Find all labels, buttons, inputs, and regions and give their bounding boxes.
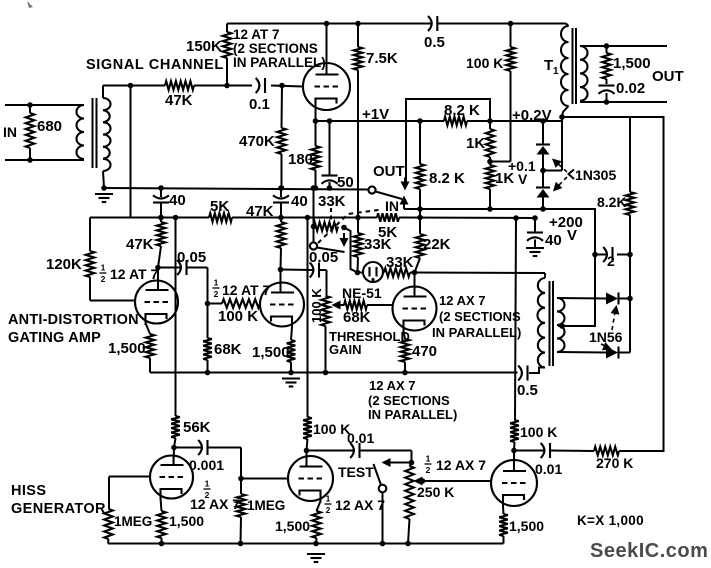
wire 8.2K right bottom xyxy=(629,215,631,353)
node bus2 B+ xyxy=(513,215,519,221)
capacitor 2 wire xyxy=(595,254,606,256)
resistor 5K-2 xyxy=(377,213,399,222)
svg-text:0.5: 0.5 xyxy=(517,382,538,399)
wire 0.01-1 down xyxy=(411,451,413,463)
svg-text:33K: 33K xyxy=(386,254,414,271)
svg-text:5K: 5K xyxy=(210,198,229,215)
arrow OUT contact xyxy=(401,182,410,191)
transformer T-in secondary xyxy=(103,98,111,171)
svg-text:1: 1 xyxy=(101,263,106,273)
resistor 680 xyxy=(26,113,35,148)
svg-text:0.05: 0.05 xyxy=(177,249,206,266)
resistor 1K-1 xyxy=(486,129,495,157)
capacitor 0.5-2 xyxy=(518,366,522,381)
resistor 47K signal xyxy=(165,81,194,90)
wire V3 plate lead xyxy=(280,270,282,285)
wire bus1-bus2 link xyxy=(419,209,421,218)
resistor 1500-1 xyxy=(146,334,155,358)
svg-text:(2 SECTIONS: (2 SECTIONS xyxy=(439,309,521,324)
svg-text:SeekIC.com: SeekIC.com xyxy=(590,540,708,562)
transformer T1 core xyxy=(572,28,574,104)
node 1K-2 bottom xyxy=(487,206,493,212)
resistor 33K-v leads xyxy=(357,218,359,234)
svg-text:1N305: 1N305 xyxy=(575,167,616,183)
wire 68K to grid xyxy=(367,304,393,306)
node V6 plate xyxy=(304,448,310,454)
dashes 1N305-1 xyxy=(555,161,567,172)
capacitor 0.5 top xyxy=(428,16,432,31)
artifact speck xyxy=(27,1,33,8)
dashes 1N305-2 xyxy=(556,177,567,188)
wire sec top xyxy=(557,297,606,300)
wire hiss2 feed xyxy=(307,218,309,418)
transformer T-out secondary xyxy=(557,298,565,352)
wire V4 cathode lead xyxy=(404,331,406,339)
svg-text:47K: 47K xyxy=(126,236,154,253)
switch TEST circle xyxy=(379,485,387,493)
svg-text:680: 680 xyxy=(37,118,62,135)
wire 56K bottom xyxy=(174,438,176,448)
svg-text:47K: 47K xyxy=(246,203,274,220)
resistor 1K-1 leads xyxy=(489,121,491,129)
svg-text:1,500: 1,500 xyxy=(252,344,290,361)
svg-text:0.001: 0.001 xyxy=(189,457,224,473)
svg-text:K=X 1,000: K=X 1,000 xyxy=(577,513,644,528)
wire V4 plate lead xyxy=(414,273,416,287)
svg-text:56K: 56K xyxy=(183,419,211,436)
wire pot to NE51 xyxy=(344,228,358,273)
transformer T-out core xyxy=(549,281,551,366)
diode 1N305-2 xyxy=(536,186,550,188)
svg-text:GATING AMP: GATING AMP xyxy=(8,330,101,346)
resistor 470K leads xyxy=(281,86,284,129)
svg-text:OUT: OUT xyxy=(373,163,405,180)
svg-text:ANTI-DISTORTION: ANTI-DISTORTION xyxy=(8,312,139,328)
node plate V1 xyxy=(324,21,330,27)
node cap2 branch xyxy=(592,252,598,258)
node TEST bottom xyxy=(380,541,386,547)
resistor 470K xyxy=(277,128,286,154)
svg-text:12 AX 7: 12 AX 7 xyxy=(436,457,486,473)
switch TEST blade xyxy=(374,464,382,485)
resistor 47K-2 leads xyxy=(280,218,282,223)
svg-text:SIGNAL CHANNEL: SIGNAL CHANNEL xyxy=(86,57,224,73)
resistor 1500-t leads xyxy=(606,46,608,53)
node bus2 47K2 xyxy=(278,215,284,221)
node sec tap xyxy=(559,323,565,329)
wire 8.2K right top xyxy=(629,117,631,192)
node 8.2Kv top xyxy=(417,118,423,124)
resistor 100K-h leads xyxy=(208,303,223,305)
svg-text:+1V: +1V xyxy=(362,106,389,123)
svg-text:40: 40 xyxy=(545,232,562,249)
node test xyxy=(409,460,415,466)
node 1500-h1 bottom xyxy=(159,541,165,547)
svg-text:100 K: 100 K xyxy=(218,308,258,325)
node 150K bottom xyxy=(224,83,230,89)
node OUT top xyxy=(604,43,610,49)
node 1K-1 bottom xyxy=(487,159,493,165)
node grid feed branch xyxy=(128,83,134,89)
resistor 8.2K vertical xyxy=(416,164,425,189)
svg-text:0.5: 0.5 xyxy=(424,34,445,51)
svg-text:+200: +200 xyxy=(549,214,583,231)
svg-text:12 AX 7: 12 AX 7 xyxy=(369,378,416,393)
transformer T-in core xyxy=(92,98,94,168)
wire ground bus xyxy=(104,188,369,190)
node 50cap top xyxy=(327,118,333,124)
wire 470 bottom xyxy=(404,362,406,373)
resistor 1MEG-2 leads xyxy=(240,479,242,495)
node 680 top xyxy=(27,102,33,108)
svg-text:40: 40 xyxy=(291,193,308,210)
node T1 bottom xyxy=(559,114,565,120)
svg-text:2: 2 xyxy=(426,465,431,475)
resistor 100K hiss xyxy=(303,417,312,439)
node 7.5K top xyxy=(355,21,361,27)
svg-text:0.01: 0.01 xyxy=(347,430,374,446)
svg-text:100 K: 100 K xyxy=(313,421,350,437)
arrow 1N56-1 xyxy=(611,305,620,315)
wire V7 plate lead xyxy=(513,451,515,461)
node bus2 22K xyxy=(417,215,423,221)
node 50 bottom xyxy=(327,185,333,191)
wire V6 plate lead xyxy=(306,451,308,467)
svg-text:470K: 470K xyxy=(239,133,275,150)
node T-in ground xyxy=(101,185,107,191)
tube V3 half-12AT7 xyxy=(260,283,304,327)
svg-text:V: V xyxy=(567,227,577,244)
svg-text:47K: 47K xyxy=(165,92,193,109)
capacitor 0.05-1 wire xyxy=(158,267,180,269)
node bus2 hiss-feed xyxy=(305,215,311,221)
svg-text:12 AT 7: 12 AT 7 xyxy=(110,266,158,282)
wire to gain pot xyxy=(326,270,328,296)
resistor 22K leads xyxy=(419,218,421,235)
svg-text:2: 2 xyxy=(326,505,331,515)
capacitor 50 xyxy=(322,174,338,176)
wire T1 prim bottom lead xyxy=(562,106,569,117)
bracket 1N305 xyxy=(569,170,575,180)
wire IN bottom xyxy=(5,159,84,161)
arrow 1N56-2 xyxy=(602,342,612,350)
ground input xyxy=(95,193,113,195)
node 470K bottom xyxy=(279,185,285,191)
wire +1V bus xyxy=(316,120,445,122)
tube V2 half-12AT7 xyxy=(135,281,178,324)
wire 1500-h2 bottom xyxy=(315,538,318,544)
capacitor 50 branch xyxy=(329,121,331,177)
wire V1 plate lead xyxy=(326,24,328,76)
wire gating bus xyxy=(150,372,518,374)
node 8.2Kv bottom xyxy=(417,206,423,212)
resistor 100K gain pot xyxy=(321,296,330,326)
capacitor 0.1 xyxy=(256,78,260,93)
neon NE-51 xyxy=(363,262,383,282)
svg-text:T: T xyxy=(544,57,553,74)
wire 0.02 bottom xyxy=(606,93,608,102)
node V1 cathode xyxy=(313,118,319,124)
resistor 47K-2 xyxy=(277,222,286,248)
wire top bus xyxy=(227,23,431,25)
capacitor 40-1 links xyxy=(160,188,162,197)
node V4 plate xyxy=(412,270,418,276)
wire plate to T-out xyxy=(415,272,546,275)
capacitor 0.001 wire xyxy=(174,447,201,449)
svg-text:68K: 68K xyxy=(214,341,242,358)
resistor 68K leads xyxy=(207,304,209,339)
resistor 68K-h xyxy=(344,301,367,310)
svg-text:1MEG: 1MEG xyxy=(114,514,152,529)
capacitor 2 xyxy=(603,247,607,262)
svg-text:IN: IN xyxy=(3,124,17,140)
svg-text:270 K: 270 K xyxy=(596,455,633,471)
switch blade xyxy=(376,192,403,200)
wire branch down to bus2 xyxy=(130,86,132,218)
ground gating xyxy=(282,377,300,379)
wire V6 grid xyxy=(241,478,288,480)
resistor 1MEG-1 xyxy=(104,509,113,539)
wire TEST arrow shaft xyxy=(390,462,412,464)
switch2 blade xyxy=(317,248,345,253)
node bus2 33K xyxy=(355,215,361,221)
resistor 120K xyxy=(86,251,95,277)
resistor 22K xyxy=(416,234,425,258)
resistor 1500-h2 xyxy=(312,511,321,538)
svg-text:250 K: 250 K xyxy=(417,484,454,500)
node 180 bottom xyxy=(313,185,319,191)
wire V5 grid corner xyxy=(108,477,110,510)
svg-text:120K: 120K xyxy=(46,256,82,273)
resistor 120K leads xyxy=(89,218,91,252)
wire bus1 xyxy=(404,209,595,326)
transformer T1 primary xyxy=(561,26,569,106)
node V7 plate xyxy=(511,448,517,454)
tube V6 half-12AX7 xyxy=(288,456,333,501)
node OUT bottom xyxy=(604,99,610,105)
svg-text:1,500: 1,500 xyxy=(108,340,146,357)
arrow 1N305-2 xyxy=(553,182,562,192)
node pot-gnd top xyxy=(311,185,317,191)
wire pot-gnd xyxy=(313,188,315,227)
resistor 56K xyxy=(171,416,180,438)
wire 0.05-1 down xyxy=(207,268,209,304)
node bus2 40cap1 xyxy=(158,215,164,221)
ground hiss bus xyxy=(307,553,325,555)
svg-text:+0.2V: +0.2V xyxy=(512,107,552,124)
wire 1N56-1 out xyxy=(619,298,631,300)
node 1500-2 bottom xyxy=(288,370,294,376)
wire 1MEG-1 bottom xyxy=(107,539,110,544)
svg-text:33K: 33K xyxy=(364,236,392,253)
node V2 plate xyxy=(155,265,161,271)
tube V1 12AT7 xyxy=(303,63,350,110)
transformer T1 secondary xyxy=(580,46,588,101)
wire bus2 left corner xyxy=(90,217,131,219)
wire T1 top lead xyxy=(566,24,569,27)
svg-text:12 AX 7: 12 AX 7 xyxy=(190,496,240,512)
node 470K top xyxy=(279,83,285,89)
node bus2 56K xyxy=(173,215,179,221)
wire 0.001 down xyxy=(240,448,242,479)
wire diode1 top xyxy=(542,121,544,144)
wire 1500-2 bottom xyxy=(290,362,292,373)
node V3 grid xyxy=(205,301,211,307)
node 1500-h2 bottom xyxy=(313,541,319,547)
svg-text:NE-51: NE-51 xyxy=(342,285,382,301)
node V6 grid xyxy=(238,476,244,482)
node wiper xyxy=(420,478,426,484)
node 100K top xyxy=(508,21,514,27)
svg-text:1: 1 xyxy=(205,479,210,489)
switch pole circle xyxy=(368,186,375,193)
arrow gain wiper xyxy=(332,301,341,310)
svg-text:IN: IN xyxy=(385,198,399,214)
svg-text:OUT: OUT xyxy=(652,68,684,85)
svg-text:1: 1 xyxy=(553,66,559,77)
capacitor 0.01-2 xyxy=(541,443,545,458)
capacitor 0.02 xyxy=(599,84,615,86)
wire 1N56-2 out xyxy=(619,352,631,354)
svg-text:(2 SECTIONS: (2 SECTIONS xyxy=(233,41,318,56)
svg-text:12 AT 7: 12 AT 7 xyxy=(233,27,280,42)
resistor 1500-t xyxy=(602,53,611,79)
node V3 plate xyxy=(278,267,284,273)
capacitor 0.01-1 wire xyxy=(307,450,354,452)
svg-text:100 K: 100 K xyxy=(466,55,503,71)
node bus2 40cap3 xyxy=(532,215,538,221)
capacitor 40-3 links xyxy=(534,218,536,232)
wire OUT bottom xyxy=(580,101,667,103)
resistor 1K-2 leads xyxy=(489,162,491,166)
resistor 100K-h xyxy=(222,299,260,308)
node NE51 left xyxy=(355,270,361,276)
svg-text:1K: 1K xyxy=(466,135,485,152)
wire sec bottom xyxy=(557,351,606,354)
node 40cap-2 top xyxy=(278,185,284,191)
node 1K-1 top xyxy=(487,118,493,124)
wire NE51 left lead xyxy=(358,272,364,274)
wire 1500-br bottom xyxy=(503,536,505,544)
svg-text:1: 1 xyxy=(326,494,331,504)
svg-text:IN PARALLEL): IN PARALLEL) xyxy=(432,325,521,340)
dashes 1N56-2 xyxy=(601,344,610,348)
capacitor 40-1 xyxy=(153,195,169,198)
svg-text:8.2 K: 8.2 K xyxy=(444,102,480,119)
wire 56K feed xyxy=(175,218,177,417)
arrow TEST xyxy=(382,458,391,467)
svg-text:1: 1 xyxy=(426,454,431,464)
wire gainpot bottom lead xyxy=(325,326,327,373)
capacitor 0.001 xyxy=(198,440,202,455)
resistor 68K xyxy=(203,338,212,360)
svg-text:V: V xyxy=(518,171,528,187)
resistor 1500-h1 xyxy=(157,511,166,538)
wire bus2 xyxy=(131,217,210,219)
node 68K bottom xyxy=(205,370,211,376)
wire V2 grid xyxy=(90,300,135,302)
node gainpot bottom xyxy=(323,370,329,376)
resistor 7.5K lead top xyxy=(357,24,359,48)
transformer T-in primary xyxy=(77,105,84,159)
tube V5 half-12AX7 xyxy=(150,456,193,499)
wire OUT top xyxy=(580,45,667,47)
wire IN contact stem xyxy=(403,204,405,209)
resistor 33K pot xyxy=(314,222,339,231)
resistor 150K xyxy=(223,32,232,58)
wire 7.5K down to bus2 xyxy=(357,70,359,218)
node 1MEG-2 bottom xyxy=(238,541,244,547)
capacitor 0.05-1 xyxy=(177,260,181,275)
svg-text:12 AX 7: 12 AX 7 xyxy=(335,497,385,513)
wire hiss bus xyxy=(108,543,504,545)
dashes 33K leader xyxy=(330,208,332,223)
arrow 1N305-1 xyxy=(552,159,562,168)
wire right outer xyxy=(562,117,664,451)
resistor 1K-2 xyxy=(486,165,495,189)
wire T1 bottom to diode mid xyxy=(561,117,563,171)
wire T-out prim bottom xyxy=(529,368,545,374)
svg-text:TEST: TEST xyxy=(338,464,374,480)
resistor 180 xyxy=(311,146,320,170)
resistor 8.2K vertical leads xyxy=(419,121,421,164)
svg-text:22K: 22K xyxy=(423,236,451,253)
svg-text:0.01: 0.01 xyxy=(535,461,562,477)
svg-text:2: 2 xyxy=(101,274,106,284)
svg-text:7.5K: 7.5K xyxy=(366,50,398,67)
wire 100K hiss bottom xyxy=(307,439,308,451)
wire 100K-div line xyxy=(510,71,512,162)
resistor 7.5K xyxy=(354,47,363,70)
wire 1500-1 bottom xyxy=(149,358,151,373)
resistor 250K leads xyxy=(410,463,412,467)
resistor 1500-2 xyxy=(287,340,296,362)
wire 100K-br bottom xyxy=(513,442,516,451)
svg-text:100 K: 100 K xyxy=(309,288,324,323)
wire T-in sec bottom lead xyxy=(103,171,104,188)
capacitor 0.05-2 wire xyxy=(281,269,313,272)
wire V5 plate lead xyxy=(173,448,176,466)
dashes 1N56-1 xyxy=(612,309,616,330)
svg-text:2: 2 xyxy=(214,289,219,299)
wire diode2 leads xyxy=(542,171,544,188)
wire V5 grid xyxy=(109,476,150,478)
svg-text:GAIN: GAIN xyxy=(329,342,362,357)
resistor 1MEG-2 xyxy=(237,494,246,517)
capacitor 40-3 xyxy=(527,231,543,233)
wire box xyxy=(406,99,490,182)
transformer T-out primary xyxy=(537,278,545,368)
svg-text:IN PARALLEL): IN PARALLEL) xyxy=(368,407,457,422)
svg-text:0.02: 0.02 xyxy=(616,80,645,97)
tube V7 half-12AX7 xyxy=(491,460,537,506)
svg-text:100 K: 100 K xyxy=(520,424,557,440)
capacitor 40-2 links xyxy=(280,188,282,197)
wire V1 cathode to bus xyxy=(315,108,317,121)
dashes gang link xyxy=(318,210,382,244)
resistor 680 leads xyxy=(29,105,31,113)
svg-text:40: 40 xyxy=(169,192,186,209)
resistor 150K leads xyxy=(226,24,228,33)
wire V2 plate lead xyxy=(157,268,159,283)
capacitor 40-2 xyxy=(273,195,289,198)
svg-text:68K: 68K xyxy=(343,309,371,326)
resistor 8.2K right xyxy=(626,192,635,215)
svg-text:1: 1 xyxy=(214,278,219,288)
wire V7 cathode lead xyxy=(502,506,505,514)
resistor 250K xyxy=(405,466,414,519)
wire 1K junction to 100K line xyxy=(490,161,511,163)
